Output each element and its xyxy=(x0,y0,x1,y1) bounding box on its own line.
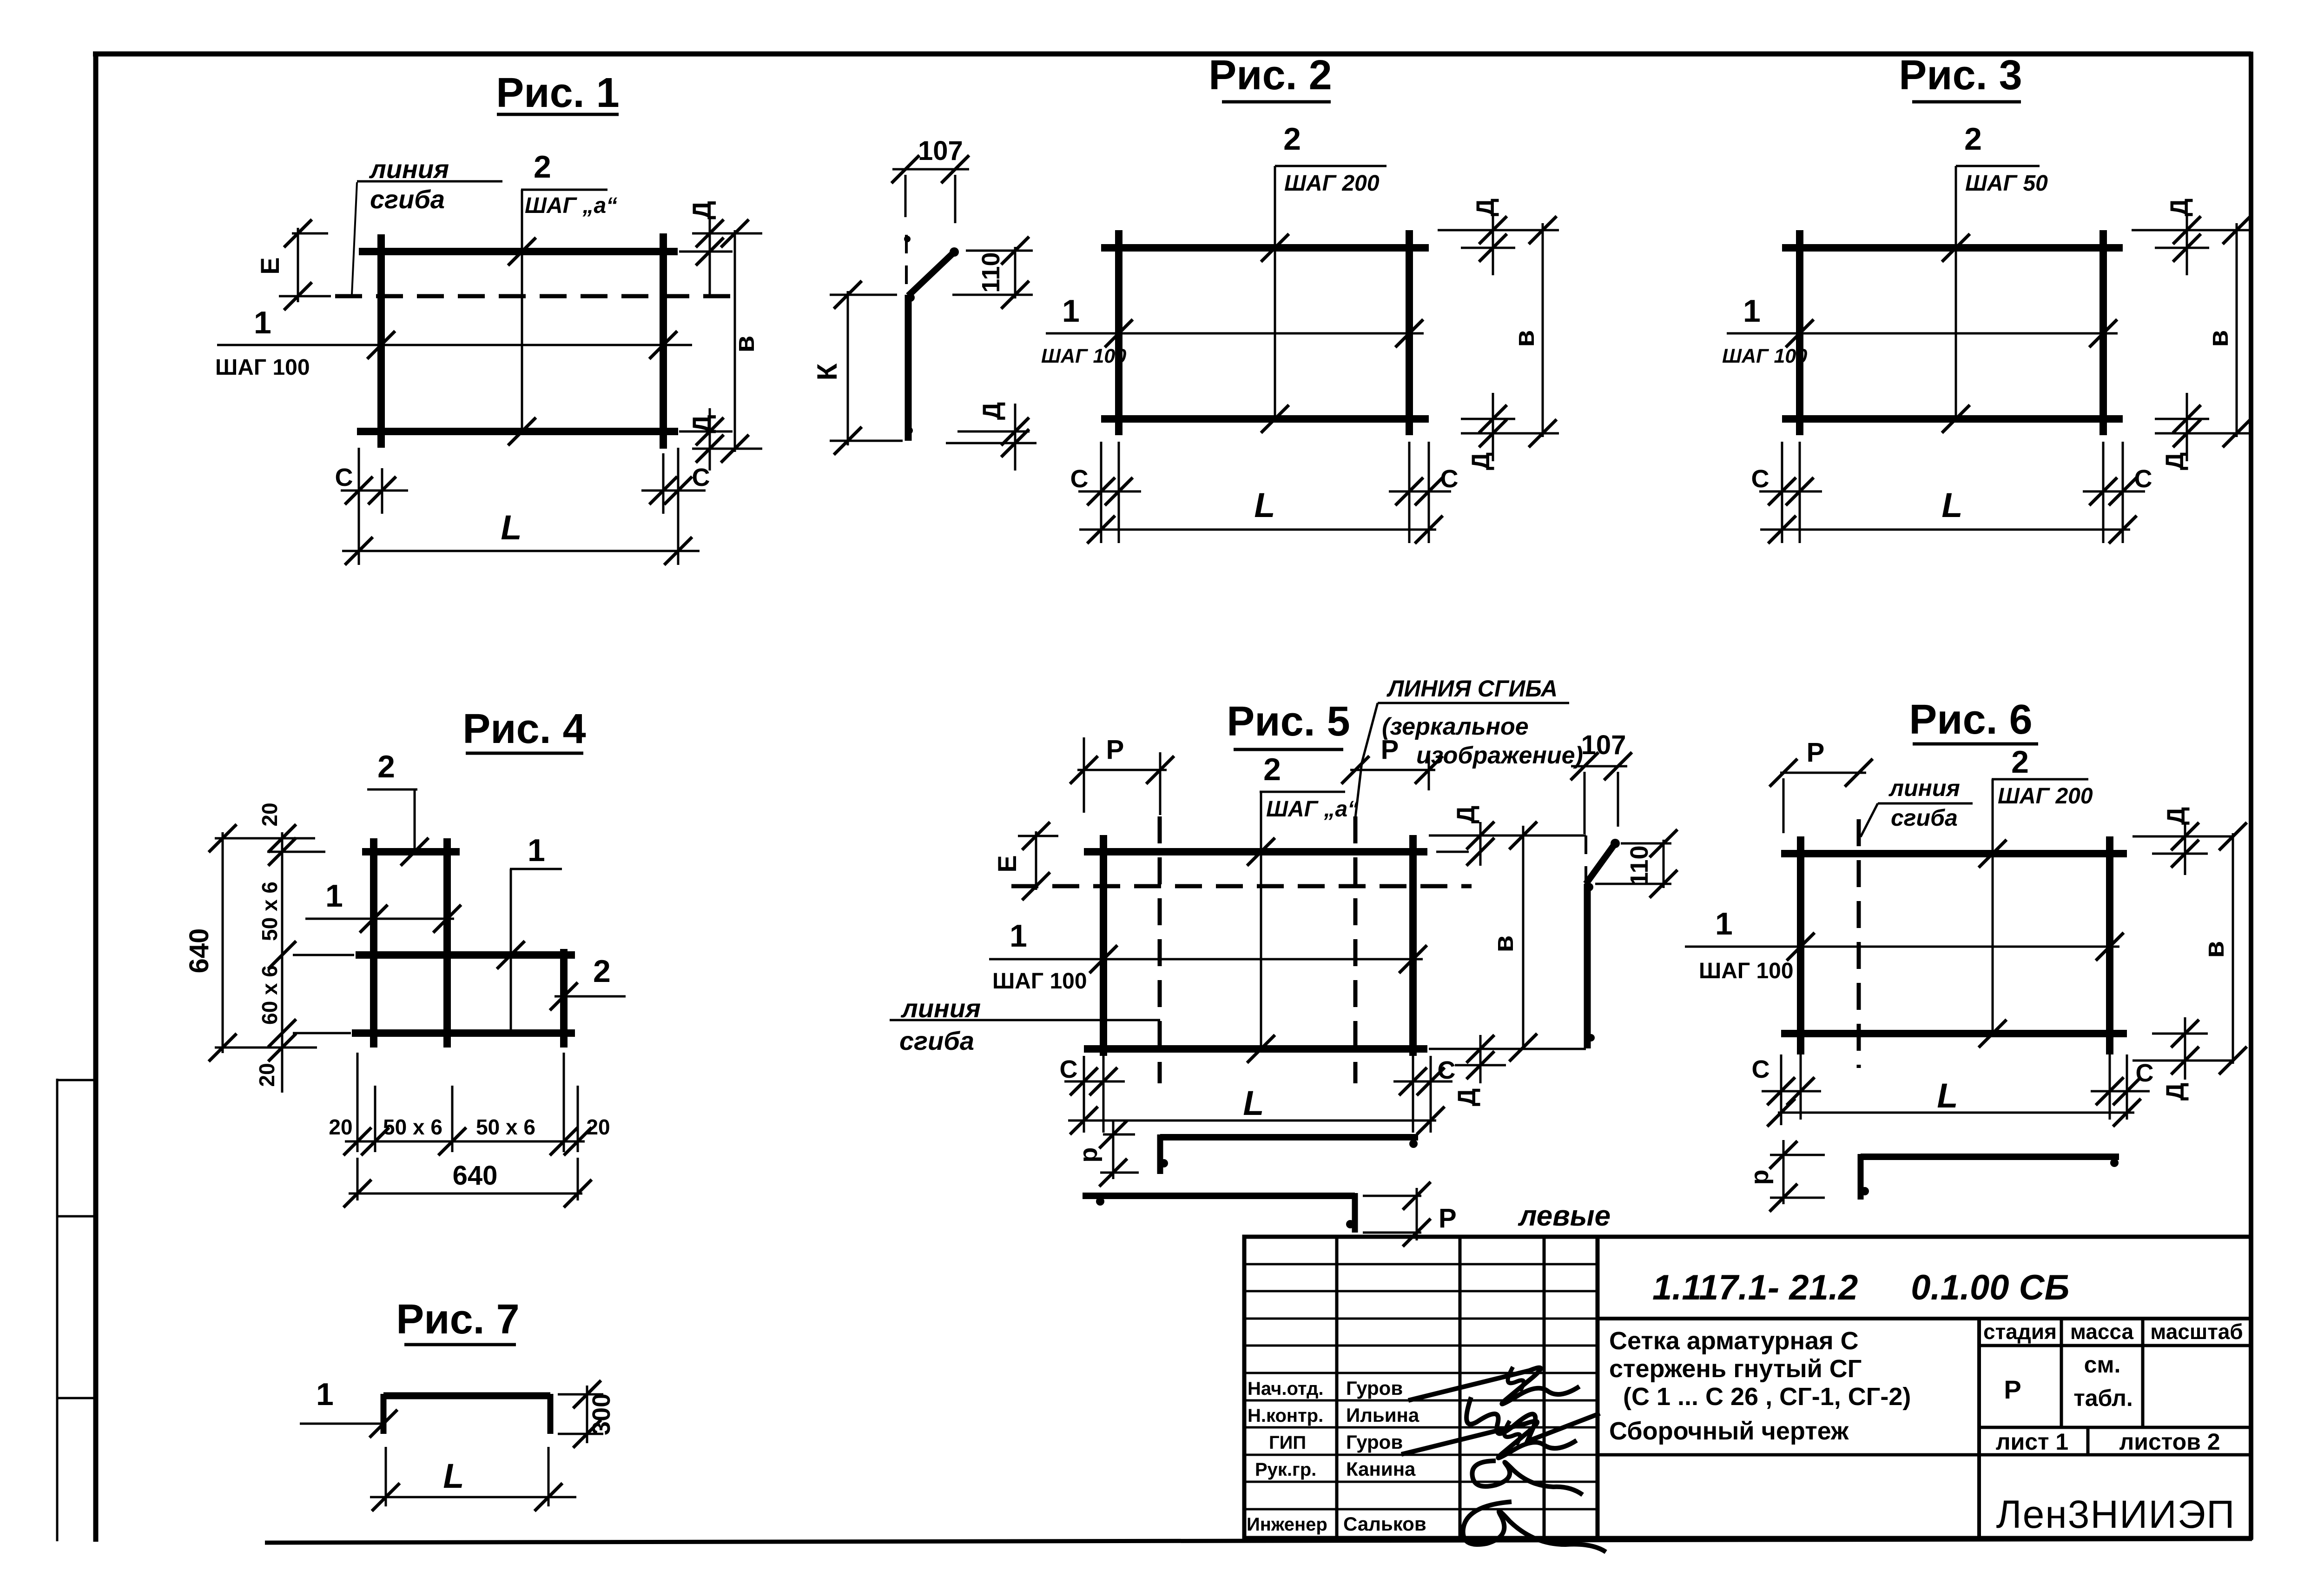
Fig.5 dim C right xyxy=(1412,1056,1414,1133)
Fig.5 dashed fold line horizontal xyxy=(1011,884,1472,888)
Fig.6 dim L xyxy=(1780,1120,1783,1125)
Fig.5 dim P right xyxy=(1428,752,1430,790)
Fig.4 mesh top bar H1 xyxy=(362,848,460,855)
svg-text:Д: Д xyxy=(1452,806,1480,823)
svg-text:(С 1 ... С 26 , СГ-1, СГ-2): (С 1 ... С 26 , СГ-1, СГ-2) xyxy=(1623,1383,1911,1411)
title block outer border xyxy=(1244,1237,2251,1538)
svg-text:Е: Е xyxy=(255,257,284,274)
svg-text:640: 640 xyxy=(184,928,214,974)
Fig.5 mesh right vertical bar xyxy=(1409,835,1417,1056)
Fig.1 dim v right xyxy=(734,230,736,452)
Fig.5 dim E xyxy=(1018,835,1058,837)
svg-text:50 x 6: 50 x 6 xyxy=(476,1115,535,1139)
svg-text:2: 2 xyxy=(1263,752,1281,787)
Fig.4 dim 640 left xyxy=(215,837,315,840)
Рис. 2 section line 2 vertical xyxy=(1274,166,1276,419)
Рис. 3 dim C left xyxy=(1781,442,1783,543)
Fig.5 section line 1 xyxy=(989,958,1423,961)
svg-text:L: L xyxy=(501,508,522,547)
svg-text:ШАГ 200: ШАГ 200 xyxy=(1998,784,2093,809)
Fig.4 mesh bottom bar H3 xyxy=(352,1029,575,1037)
Рис. 3 dim C right xyxy=(2102,442,2105,543)
title block designation cell divider xyxy=(1598,1317,2251,1320)
title block list row top line xyxy=(1979,1426,2251,1429)
svg-text:1: 1 xyxy=(254,305,271,340)
Fig.5 dim L xyxy=(1068,1120,1436,1122)
svg-text:1: 1 xyxy=(325,878,343,914)
Fig.6 dim P xyxy=(1780,772,1866,774)
Рис. 3 section line 1 xyxy=(1727,332,2118,335)
svg-text:Рис. 7: Рис. 7 xyxy=(396,1296,519,1343)
Рис. 2 dim L xyxy=(1079,529,1436,531)
svg-text:ШАГ 100: ШАГ 100 xyxy=(1041,345,1126,367)
svg-text:ШАГ „а“: ШАГ „а“ xyxy=(525,193,617,218)
svg-text:107: 107 xyxy=(1581,730,1626,760)
Fig.4 mesh vertical bar V3 xyxy=(560,949,568,1048)
Fig.6 dim D bottom right xyxy=(2152,1033,2208,1035)
svg-text:L: L xyxy=(443,1457,464,1495)
Fig.1 dim C left xyxy=(358,448,360,565)
svg-text:К: К xyxy=(812,363,843,380)
Fig.6 section line 2 vertical xyxy=(1992,779,1994,1034)
Рис. 3 dim D top right xyxy=(2132,229,2253,232)
svg-text:Д: Д xyxy=(2166,199,2193,216)
Fig.5 bent bar side view xyxy=(1586,843,1615,884)
svg-text:С: С xyxy=(335,464,353,491)
Fig.6 bent bar hook (plan) xyxy=(1861,1154,2119,1160)
Fig.5 section line 2 vertical xyxy=(1260,792,1262,1049)
Fig.6 dim v right xyxy=(2232,833,2234,1064)
svg-text:50 x 6: 50 x 6 xyxy=(257,882,282,941)
Рис. 2 mesh right vertical bar xyxy=(1406,230,1413,435)
svg-text:С: С xyxy=(1438,1056,1456,1084)
Fig.7 channel bar right leg xyxy=(548,1394,554,1434)
Рис. 2 mesh left vertical bar xyxy=(1115,230,1122,435)
Fig.4 dim 640 bottom xyxy=(357,1158,359,1200)
svg-text:в: в xyxy=(729,336,760,353)
svg-text:1: 1 xyxy=(1010,918,1027,954)
Fig.5 bent bar hook 2 (plan) xyxy=(1083,1193,1355,1199)
Fig.4 bottom subdivided dim line xyxy=(357,1053,359,1152)
Fig.1 dashed fold line xyxy=(335,294,733,298)
svg-text:300: 300 xyxy=(588,1393,615,1435)
svg-text:1: 1 xyxy=(1743,293,1761,329)
svg-text:сгиба: сгиба xyxy=(370,185,445,214)
Fig.6 mesh right vertical bar xyxy=(2106,836,2113,1054)
Рис. 2 dim C right xyxy=(1408,442,1411,543)
Fig.1 section line 1 xyxy=(217,344,692,346)
svg-text:стадия: стадия xyxy=(1983,1319,2057,1344)
Fig.5 mesh top bar xyxy=(1084,848,1427,855)
svg-text:ШАГ 100: ШАГ 100 xyxy=(1722,345,1807,367)
Рис. 3 dim v right xyxy=(2236,223,2238,437)
svg-text:(зеркальное: (зеркальное xyxy=(1382,713,1529,740)
Fig.1 mesh left vertical bar xyxy=(377,234,385,448)
title block stadiya/massa divider xyxy=(2060,1319,2063,1427)
svg-text:линия: линия xyxy=(1888,775,1960,801)
svg-text:С: С xyxy=(1751,465,1769,493)
title block header underline xyxy=(1979,1344,2251,1347)
Рис. 2 mesh bottom bar xyxy=(1101,415,1429,423)
svg-text:сгиба: сгиба xyxy=(899,1026,974,1055)
svg-text:в: в xyxy=(2203,330,2234,347)
svg-text:Гуров: Гуров xyxy=(1346,1431,1403,1453)
Fig.1 bent bar side view dashed stub xyxy=(905,235,908,295)
svg-text:L: L xyxy=(1941,486,1962,524)
signature 5 (Salkov) xyxy=(1463,1502,1606,1552)
page frame left border xyxy=(93,52,99,1542)
svg-text:С: С xyxy=(2134,465,2152,493)
svg-text:Д: Д xyxy=(2161,452,2189,470)
svg-text:стержень гнутый СГ: стержень гнутый СГ xyxy=(1609,1355,1862,1383)
Fig.4 mesh vertical bar V1 xyxy=(370,838,377,1048)
svg-text:20: 20 xyxy=(257,802,282,826)
svg-text:ШАГ 200: ШАГ 200 xyxy=(1284,171,1380,196)
Рис. 2 dim D top right xyxy=(1438,229,1559,232)
svg-text:Инженер: Инженер xyxy=(1247,1514,1327,1535)
Fig.1 mesh bottom bar xyxy=(357,428,678,435)
signature 1 (Gurov) xyxy=(1408,1368,1579,1404)
Fig.5 dim v side view xyxy=(1522,826,1525,1050)
Fig.5 dim 110 xyxy=(1621,842,1671,845)
svg-text:1: 1 xyxy=(528,833,545,868)
Fig.6 dashed fold line xyxy=(1857,819,1861,1068)
Fig.6 section line 1 xyxy=(1685,946,2119,948)
svg-text:Е: Е xyxy=(992,855,1022,872)
title block staff table column lines xyxy=(1335,1237,1339,1538)
svg-text:Рис. 2: Рис. 2 xyxy=(1208,52,1332,99)
Fig.5 dim P left xyxy=(1083,737,1085,813)
svg-text:2: 2 xyxy=(593,954,611,989)
svg-text:Сетка арматурная С: Сетка арматурная С xyxy=(1609,1327,1859,1355)
svg-text:Д: Д xyxy=(1467,452,1495,470)
svg-text:2: 2 xyxy=(377,749,395,784)
title block name/right divider vertical xyxy=(1977,1319,1981,1538)
svg-text:листов 2: листов 2 xyxy=(2119,1429,2220,1455)
title block staff table row lines xyxy=(1244,1263,1598,1266)
page frame right border xyxy=(2249,52,2253,1539)
filing margin tick 3 xyxy=(57,1397,93,1399)
Рис. 3 dim D bottom right xyxy=(2155,418,2209,420)
svg-text:50 x 6: 50 x 6 xyxy=(383,1115,442,1139)
svg-text:линия: линия xyxy=(369,154,449,184)
Fig.1 dim D side view bottom xyxy=(957,431,1030,433)
svg-text:640: 640 xyxy=(453,1160,498,1191)
Fig.5 bent bar hook 1 (plan) xyxy=(1160,1134,1418,1140)
title block massa/masshtab divider xyxy=(2141,1319,2145,1427)
svg-text:в: в xyxy=(2199,941,2230,958)
svg-text:Д: Д xyxy=(2162,807,2190,825)
svg-text:Рис. 6: Рис. 6 xyxy=(1909,696,2032,743)
svg-text:С: С xyxy=(1060,1055,1078,1083)
Fig.1 dim L xyxy=(342,550,700,552)
svg-text:в: в xyxy=(1509,330,1540,347)
Fig.5 bent bar side view dashed stub xyxy=(1585,835,1587,884)
svg-text:Гуров: Гуров xyxy=(1346,1377,1403,1399)
Fig.1 dim 110 xyxy=(966,250,1033,252)
svg-text:Р: Р xyxy=(1439,1203,1457,1233)
svg-text:Д: Д xyxy=(978,402,1006,420)
svg-text:L: L xyxy=(1243,1084,1264,1122)
svg-text:Д: Д xyxy=(1453,1088,1481,1106)
svg-text:левые: левые xyxy=(1518,1200,1611,1232)
svg-text:20: 20 xyxy=(255,1063,279,1087)
Fig.1 mesh top bar xyxy=(359,248,678,255)
Fig.5 dim D bottom right xyxy=(1429,1048,1586,1050)
Fig.6 fold label leader xyxy=(1861,803,1878,837)
svg-text:ШАГ 100: ШАГ 100 xyxy=(1699,959,1794,983)
svg-text:20: 20 xyxy=(329,1115,352,1139)
svg-text:2: 2 xyxy=(534,149,551,185)
Fig.5 mirror label leader xyxy=(1355,703,1378,817)
svg-text:Рис. 4: Рис. 4 xyxy=(462,706,586,752)
svg-text:1: 1 xyxy=(316,1377,334,1412)
Fig.1 mesh right vertical bar xyxy=(660,233,667,449)
svg-text:С: С xyxy=(1070,465,1089,493)
Рис. 3 dim L xyxy=(1760,529,2130,531)
svg-text:Ильина: Ильина xyxy=(1346,1404,1419,1426)
svg-text:масса: масса xyxy=(2070,1319,2134,1344)
Fig.6 mesh left vertical bar xyxy=(1797,836,1804,1054)
Рис. 2 mesh top bar xyxy=(1101,244,1429,252)
Fig.1 dim E xyxy=(292,232,328,235)
Fig.1 dim C right xyxy=(677,448,680,565)
svg-text:1.117.1- 21.2 0.1.00 СБ: 1.117.1- 21.2 0.1.00 СБ xyxy=(1652,1268,2069,1307)
svg-text:ШАГ 100: ШАГ 100 xyxy=(992,969,1087,994)
filing margin tick 2 xyxy=(57,1215,93,1218)
Fig.6 dim C left xyxy=(1780,1054,1783,1120)
svg-text:ШАГ 50: ШАГ 50 xyxy=(1965,171,2048,196)
title block list row bottom line xyxy=(1598,1453,2251,1457)
page frame top border xyxy=(93,52,2251,57)
Fig.1 fold-line leader xyxy=(352,182,357,295)
svg-text:С: С xyxy=(2136,1059,2154,1087)
svg-text:ШАГ „а“: ШАГ „а“ xyxy=(1266,797,1359,822)
Fig.4 mesh vertical bar V2 xyxy=(443,838,451,1048)
svg-text:107: 107 xyxy=(918,136,963,166)
Fig.6 dim D top right xyxy=(2133,835,2233,838)
svg-text:110: 110 xyxy=(977,252,1005,292)
svg-text:лист 1: лист 1 xyxy=(1996,1429,2069,1455)
svg-text:Р: Р xyxy=(1106,735,1124,765)
svg-text:масштаб: масштаб xyxy=(2150,1319,2243,1344)
Fig.5 mesh bottom bar xyxy=(1084,1045,1427,1053)
svg-text:1: 1 xyxy=(1062,293,1080,329)
svg-text:2: 2 xyxy=(1283,121,1301,157)
svg-text:Д: Д xyxy=(1472,199,1499,216)
svg-text:Д: Д xyxy=(687,415,716,433)
svg-text:С: С xyxy=(1440,465,1459,493)
svg-text:ГИП: ГИП xyxy=(1269,1432,1306,1453)
Рис. 2 section line 1 xyxy=(1046,332,1424,335)
Fig.1 dim D top right xyxy=(692,232,731,235)
svg-text:Н.контр.: Н.контр. xyxy=(1248,1406,1323,1426)
page frame bottom border xyxy=(265,1539,2252,1543)
Рис. 2 dim D bottom right xyxy=(1461,418,1515,420)
svg-text:110: 110 xyxy=(1625,845,1653,886)
svg-text:Рук.гр.: Рук.гр. xyxy=(1255,1459,1316,1480)
svg-text:сгиба: сгиба xyxy=(1891,805,1958,831)
svg-text:линия: линия xyxy=(900,994,981,1023)
signature 3 (Gurov) xyxy=(1401,1421,1577,1458)
Fig.4 left subdivided dim line xyxy=(267,851,325,853)
title block list divider xyxy=(2086,1427,2090,1455)
Fig.5 mesh left vertical bar xyxy=(1100,835,1107,1056)
svg-text:20: 20 xyxy=(586,1115,610,1139)
Рис. 3 mesh bottom bar xyxy=(1782,415,2123,423)
Fig.7 dim L xyxy=(385,1447,387,1506)
svg-text:р: р xyxy=(1746,1170,1774,1185)
Fig.7 dim 300 xyxy=(558,1393,603,1396)
svg-text:Д: Д xyxy=(2161,1083,2189,1101)
Fig.1 dim D bottom right xyxy=(679,431,733,433)
signature 4 (Kanina) xyxy=(1472,1461,1583,1495)
Рис. 3 mesh left vertical bar xyxy=(1796,230,1803,435)
svg-text:табл.: табл. xyxy=(2073,1385,2133,1411)
Рис. 2 dim C left xyxy=(1100,442,1103,543)
Рис. 3 mesh right vertical bar xyxy=(2100,230,2107,435)
Рис. 3 section line 2 vertical xyxy=(1955,166,1957,419)
svg-text:60 x 6: 60 x 6 xyxy=(257,965,282,1025)
svg-text:см.: см. xyxy=(2084,1352,2121,1378)
svg-text:Р: Р xyxy=(2004,1375,2021,1404)
svg-text:1: 1 xyxy=(1715,906,1733,941)
Fig.1 dim K xyxy=(830,294,897,296)
Fig.6 dim C right xyxy=(2109,1054,2111,1120)
Fig.5 dashed fold line vertical 2 xyxy=(1353,816,1358,1083)
Fig.4 section line 1 left xyxy=(305,918,454,920)
svg-text:Канина: Канина xyxy=(1346,1458,1416,1480)
Fig.5 dim p hook1 xyxy=(1103,1134,1135,1136)
svg-text:Д: Д xyxy=(687,201,716,219)
svg-text:L: L xyxy=(1937,1076,1958,1115)
Fig.6 mesh top bar xyxy=(1781,850,2127,857)
Рис. 2 dim v right xyxy=(1542,223,1544,437)
svg-text:ЛИНИЯ СГИБА: ЛИНИЯ СГИБА xyxy=(1386,676,1558,702)
Fig.6 mesh bottom bar xyxy=(1781,1030,2127,1037)
Fig.5 dim P hook2 xyxy=(1363,1195,1421,1197)
Fig.1 bent bar side view xyxy=(905,295,912,441)
svg-text:Лен3НИИЭП: Лен3НИИЭП xyxy=(1996,1492,2235,1536)
svg-text:Рис. 1: Рис. 1 xyxy=(496,70,619,116)
svg-text:Рис. 5: Рис. 5 xyxy=(1227,698,1350,745)
svg-text:Нач.отд.: Нач.отд. xyxy=(1248,1379,1323,1399)
svg-text:Р: Р xyxy=(1381,735,1399,765)
svg-text:р: р xyxy=(1075,1147,1103,1163)
svg-text:Рис. 3: Рис. 3 xyxy=(1899,52,2022,99)
Рис. 3 mesh top bar xyxy=(1782,244,2123,252)
Fig.7 channel bar top xyxy=(383,1392,550,1399)
svg-text:Сборочный чертеж: Сборочный чертеж xyxy=(1609,1417,1849,1445)
Fig.7 channel bar left leg xyxy=(381,1394,387,1434)
Fig.6 dim p hook xyxy=(1770,1154,1825,1156)
filing margin tick 1 xyxy=(57,1079,93,1081)
svg-text:С: С xyxy=(692,464,710,491)
svg-text:С: С xyxy=(1752,1055,1770,1083)
svg-text:2: 2 xyxy=(2011,744,2029,780)
svg-text:ШАГ 100: ШАГ 100 xyxy=(215,355,310,380)
left filing margin line xyxy=(56,1079,59,1541)
Fig.1 section line 2 vertical xyxy=(521,190,523,431)
signature 2 (Ilina) xyxy=(1466,1397,1600,1441)
svg-text:Р: Р xyxy=(1807,737,1825,768)
Fig.5 dim D top right xyxy=(1429,835,1586,837)
svg-text:2: 2 xyxy=(1964,121,1982,157)
Fig.5 dim C left xyxy=(1083,1056,1085,1133)
Fig.4 mesh middle bar H2 xyxy=(356,951,575,959)
svg-text:L: L xyxy=(1254,486,1275,524)
svg-text:Сальков: Сальков xyxy=(1343,1513,1426,1535)
svg-text:в: в xyxy=(1488,935,1519,953)
Fig.5 dashed fold line vertical 1 xyxy=(1158,816,1162,1083)
